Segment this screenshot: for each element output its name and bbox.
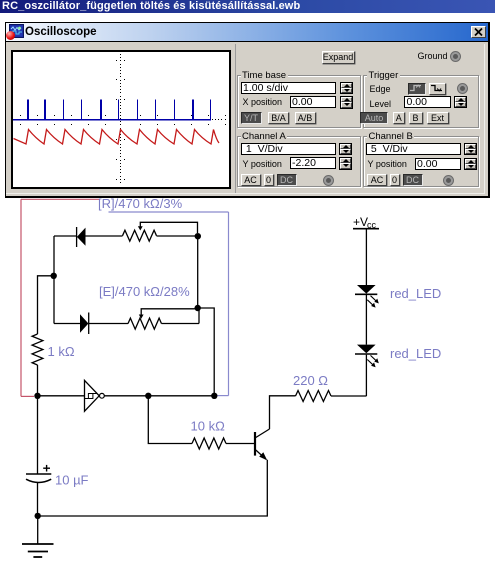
svg-text:red_LED: red_LED <box>390 346 441 361</box>
svg-text:10 µF: 10 µF <box>55 473 89 488</box>
svg-text:[R]/470 kΩ/3%: [R]/470 kΩ/3% <box>98 198 183 211</box>
svg-text:red_LED: red_LED <box>390 286 441 301</box>
svg-text:+V: +V <box>353 215 368 229</box>
svg-text:1 kΩ: 1 kΩ <box>48 344 75 359</box>
svg-text:10 kΩ: 10 kΩ <box>191 419 226 434</box>
svg-text:220 Ω: 220 Ω <box>293 373 328 388</box>
svg-text:[E]/470 kΩ/28%: [E]/470 kΩ/28% <box>99 284 190 299</box>
